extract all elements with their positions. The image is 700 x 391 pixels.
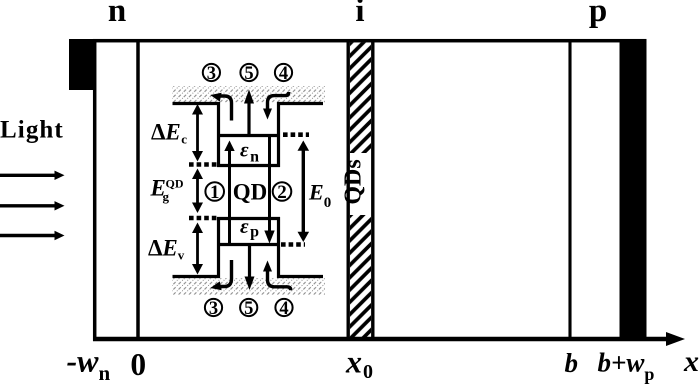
QD well right wall (bottom) bbox=[277, 217, 280, 278]
circled 4 (top) bbox=[275, 64, 292, 81]
conduction band line left segment bbox=[173, 102, 221, 105]
svg-text:n: n bbox=[108, 0, 126, 29]
curved arrow 3 (top, out to left) bbox=[218, 96, 232, 121]
circled 1 bbox=[205, 182, 224, 201]
svg-text:4: 4 bbox=[279, 64, 288, 84]
electron level line (eps_n) bbox=[217, 134, 280, 137]
boundary line x=b bbox=[568, 42, 571, 338]
E_g^QD double arrow bbox=[196, 177, 199, 205]
svg-text:QD: QD bbox=[166, 176, 184, 190]
svg-text:g: g bbox=[163, 189, 170, 204]
valence band line left segment bbox=[173, 275, 221, 278]
QD valence band top line bbox=[217, 217, 280, 220]
svg-text:1: 1 bbox=[210, 182, 220, 203]
boundary line x=0 bbox=[136, 42, 140, 338]
QDs strip hatch fill bbox=[350, 42, 371, 337]
p-contact black strip (right) bbox=[620, 39, 647, 341]
delta E_v double arrow bbox=[196, 231, 199, 266]
QD well left wall (top) bbox=[217, 102, 220, 167]
conduction band line right segment bbox=[277, 102, 323, 105]
dotted extension of QD VB top (left) bbox=[189, 216, 218, 221]
QDs strip right border bbox=[371, 42, 374, 338]
QDs strip white window bbox=[350, 153, 371, 215]
dotted extension of QD CB bottom (left) bbox=[189, 162, 218, 167]
valence band line right segment bbox=[277, 275, 323, 278]
svg-text:5: 5 bbox=[244, 299, 253, 319]
svg-text:p: p bbox=[589, 0, 607, 29]
dotted extension of eps_n (right) bbox=[283, 132, 309, 137]
circled 3 (bottom) bbox=[205, 299, 222, 316]
svg-text:5: 5 bbox=[244, 64, 253, 84]
circled 4 (bottom) bbox=[275, 299, 292, 316]
QD well left wall (bottom) bbox=[217, 217, 220, 278]
x axis arrowhead bbox=[666, 332, 685, 346]
svg-text:QDs: QDs bbox=[341, 159, 367, 204]
light arrow 2 bbox=[0, 204, 56, 207]
svg-text:4: 4 bbox=[279, 299, 288, 319]
E_0 double arrow bbox=[302, 148, 305, 234]
svg-text:x: x bbox=[683, 345, 699, 378]
transition arrow 2 (down, eps_n to eps_p) bbox=[268, 137, 271, 232]
svg-text:b: b bbox=[565, 348, 579, 378]
circled 5 (top) bbox=[240, 64, 257, 81]
svg-text:0: 0 bbox=[130, 347, 146, 382]
transition arrow 1 (up, eps_p to eps_n) bbox=[228, 151, 231, 243]
top band hatch bar bbox=[172, 86, 325, 102]
svg-text:Light: Light bbox=[0, 117, 64, 144]
svg-text:3: 3 bbox=[207, 64, 216, 84]
x axis line (bottom) bbox=[93, 337, 668, 342]
light arrow 1 bbox=[0, 174, 56, 177]
QD conduction band bottom line bbox=[217, 164, 280, 167]
escape arrow 5 (up, center) bbox=[247, 101, 250, 135]
circled 3 (top) bbox=[203, 64, 220, 81]
n-contact black pad (top-left) bbox=[69, 39, 96, 90]
bottom band hatch bar bbox=[172, 278, 325, 295]
curved arrow 4 (top, in from right) bbox=[268, 92, 289, 110]
curved arrow 3 (bottom, out to left) bbox=[218, 260, 232, 287]
svg-text:3: 3 bbox=[209, 299, 218, 319]
light arrow 3 bbox=[0, 234, 56, 237]
escape arrow 5 (down, center) bbox=[248, 246, 251, 278]
circled 2 bbox=[273, 182, 292, 201]
delta E_c double arrow bbox=[196, 113, 199, 153]
dotted extension of eps_p (right) bbox=[281, 242, 305, 247]
svg-text:2: 2 bbox=[277, 182, 287, 203]
svg-text:i: i bbox=[355, 0, 364, 29]
QD well right wall (top) bbox=[277, 102, 280, 167]
outer device box bbox=[95, 41, 645, 339]
QDs strip left border bbox=[347, 42, 350, 338]
svg-text:QD: QD bbox=[233, 180, 268, 205]
circled 5 (bottom) bbox=[240, 299, 257, 316]
curved arrow 4 (bottom, in from right) bbox=[268, 270, 291, 290]
hole level line (eps_p) bbox=[217, 243, 280, 246]
